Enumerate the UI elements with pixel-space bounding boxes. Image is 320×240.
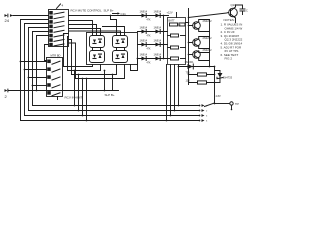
wire U1 out b [68, 24, 96, 35]
U1 switch S2 [50, 16, 64, 19]
svg-text:47K: 47K [146, 63, 151, 65]
wire Q3 base [188, 41, 192, 43]
U1 switch S5 [50, 30, 64, 33]
wire power rail vertical [213, 66, 215, 103]
wire bus drop d [85, 78, 87, 120]
junction row1 [163, 15, 165, 17]
wire Q4 collector [199, 51, 210, 53]
junction [174, 110, 176, 112]
U1 switch S4 [50, 25, 64, 28]
svg-text:NOTES:: NOTES: [223, 18, 234, 22]
bus pin P1 [199, 104, 205, 107]
wire module out a [185, 21, 188, 23]
svg-text:BATT: BATT [168, 19, 175, 22]
wire rail a [187, 8, 189, 84]
bus pin P4 [199, 119, 205, 122]
IC U2 switch array box [46, 57, 62, 96]
junction [214, 74, 216, 76]
junction [24, 69, 26, 71]
wire SLP tap to OC2 [110, 15, 116, 35]
wire Q1 collector [235, 5, 242, 8]
junction [209, 66, 211, 68]
wire OC4 feedback [130, 58, 137, 70]
capacitor C11 label [112, 12, 126, 16]
diode D5 [139, 38, 147, 46]
diode D8 [153, 52, 161, 60]
svg-text:FIG 2: FIG 2 [224, 57, 232, 61]
resistor R5 [170, 57, 178, 60]
IC U3 optocoupler box [86, 32, 137, 64]
U1 switch S3 [50, 21, 64, 24]
resistor R8 [185, 79, 214, 84]
junction [86, 120, 88, 122]
transistor Q2 [193, 22, 201, 30]
diode D7 [139, 52, 147, 60]
junction [178, 66, 180, 68]
junction [82, 78, 84, 80]
wire riser b [111, 74, 113, 90]
junction [82, 115, 84, 117]
svg-text:24: 24 [4, 18, 9, 23]
wire OC inner d [123, 47, 125, 50]
wire bundle v5 [36, 35, 48, 90]
wire input to U1 [13, 14, 49, 16]
svg-text:4.8V: 4.8V [215, 95, 220, 98]
U1 switch S1 [50, 11, 64, 14]
svg-text:1N914: 1N914 [139, 25, 147, 29]
bus pin P3 [199, 114, 205, 117]
svg-text:47K: 47K [146, 36, 151, 38]
wire tap U2 pin c [32, 84, 46, 86]
wire module top pin [175, 12, 177, 17]
junction [214, 103, 216, 105]
svg-text:TIP: TIP [235, 103, 239, 106]
wire Q3 collector [199, 36, 210, 38]
junction [188, 25, 190, 27]
junction row4 [163, 58, 165, 60]
wire supply feed [178, 65, 214, 67]
wire U1 out a [68, 20, 92, 35]
U1 switch S8 [50, 43, 64, 46]
junction [78, 74, 80, 76]
svg-text:2: 2 [4, 94, 7, 99]
junction [166, 120, 168, 122]
wire SLP B+ bus [68, 14, 168, 16]
wire tap U2 pin a [24, 68, 46, 70]
diode D4 [153, 25, 161, 33]
svg-text:MTR BD: MTR BD [50, 53, 60, 57]
svg-text:1N4001: 1N4001 [184, 60, 194, 64]
diode D10 [184, 60, 194, 69]
junction [188, 17, 190, 19]
svg-text:RCV MUTE CONTROL: RCV MUTE CONTROL [70, 8, 101, 12]
svg-text:SLP B+: SLP B+ [103, 8, 113, 12]
U2 switch S4 [48, 84, 60, 88]
wire row2 [137, 30, 167, 32]
bus pin P2 [199, 109, 205, 112]
wire Q4 base [188, 53, 192, 55]
U2 bottom pin [56, 96, 58, 99]
svg-text:2: 2 [206, 110, 208, 112]
wire bundle v2 [24, 23, 199, 115]
wire terminal2 [8, 89, 119, 91]
diode D1 [139, 9, 147, 17]
module A1 box [167, 17, 185, 64]
wire bundle v4 [32, 31, 199, 105]
U1 pin 4 mark [56, 3, 63, 8]
junction [188, 74, 190, 76]
junction [86, 78, 88, 80]
junction [214, 66, 216, 68]
wire Q2 collector [199, 19, 210, 21]
wire U1 low out a [63, 33, 92, 66]
wire U1 out c [68, 28, 100, 35]
wire Q2 emitter [199, 29, 210, 31]
resistor R1 [169, 23, 181, 27]
wire U1 to U2 link [44, 44, 48, 60]
junction [32, 85, 34, 87]
U1 switch S7 [50, 39, 64, 42]
wire to Q1 [188, 12, 228, 17]
svg-text:47K: 47K [146, 20, 151, 22]
svg-text:1N914: 1N914 [139, 9, 147, 13]
wire Q3 emitter [199, 46, 210, 48]
junction row2 [163, 31, 165, 33]
U1 switch S6 [50, 34, 64, 37]
wire OC inner a [91, 47, 93, 50]
resistor R7 [185, 71, 214, 76]
wire OC2 pin [102, 26, 124, 35]
wire bundle v3 [28, 27, 199, 110]
junction [28, 77, 30, 79]
wire tap U2 pin 0 [20, 60, 46, 62]
optocoupler OC3 [89, 50, 104, 62]
svg-text:4: 4 [61, 3, 63, 7]
U2 switch S3 [48, 76, 60, 80]
capacitor C12 [240, 9, 248, 15]
svg-text:1N914: 1N914 [139, 38, 147, 42]
junction row3 [163, 44, 165, 46]
resistor R2 [179, 23, 185, 26]
wire OC inner b [99, 47, 101, 50]
node 24 input terminal [4, 14, 13, 23]
optocoupler OC1 [89, 35, 104, 47]
U2 switch S1 [48, 60, 60, 64]
svg-text:5: 5 [206, 120, 208, 122]
wire OC inner c [115, 47, 117, 50]
wire merge diagonal [204, 103, 214, 107]
wire Q4 emitter [199, 58, 210, 60]
svg-text:RCV INHIBIT: RCV INHIBIT [64, 95, 82, 99]
svg-text:C: C [246, 9, 248, 12]
svg-text:47K: 47K [146, 49, 151, 51]
wire module outputs down a [165, 64, 167, 120]
notes text block [220, 18, 242, 61]
wire U1 low out d [68, 43, 124, 79]
wire module outputs down c [173, 64, 175, 110]
U2 switch S5 [48, 92, 60, 96]
wire bus drop c [81, 78, 83, 115]
junction [188, 42, 190, 44]
resistor R4 [170, 46, 178, 49]
wire U1 out d [68, 31, 120, 36]
junction SLP [110, 15, 112, 17]
junction [178, 105, 180, 107]
wire bundle v1 [20, 19, 199, 120]
transistor Q4 [193, 51, 201, 59]
svg-text:SLP B+: SLP B+ [104, 93, 114, 97]
svg-text:750: 750 [185, 71, 190, 74]
optocoupler OC4 [112, 50, 127, 62]
svg-text:1N914: 1N914 [153, 25, 161, 29]
zener D9 [214, 70, 232, 82]
svg-text:1N914: 1N914 [153, 38, 161, 42]
junction [137, 58, 139, 60]
jack J2 [214, 95, 239, 110]
diode D2 [153, 9, 161, 17]
wire module row links [167, 35, 185, 58]
wire bus drop b [77, 74, 79, 110]
transistor Q1 [229, 7, 238, 18]
wire U1 low out b [67, 36, 100, 70]
label pin numbers [206, 105, 208, 122]
junction [188, 22, 190, 24]
svg-text:2N2222: 2N2222 [202, 48, 212, 52]
diode D3 [139, 25, 147, 33]
svg-text:1N4733: 1N4733 [223, 75, 233, 79]
wire U1 low out c [68, 39, 116, 74]
svg-text:+12V: +12V [166, 10, 172, 14]
wire row3 [137, 43, 167, 45]
svg-text:1N914: 1N914 [153, 9, 161, 13]
wire Q1 emitter [234, 18, 236, 23]
junction [74, 70, 76, 72]
svg-text:1N914: 1N914 [153, 52, 161, 56]
svg-text:1N914: 1N914 [139, 52, 147, 56]
optocoupler OC2 [112, 35, 127, 47]
junction [170, 115, 172, 117]
wire Q2 base [188, 24, 192, 26]
svg-text:3: 3 [206, 115, 208, 117]
junction [188, 54, 190, 56]
junction [78, 110, 80, 112]
node 2 terminal bottom left [4, 89, 7, 99]
diode D6 [153, 38, 161, 46]
IC U1 switch array box [48, 9, 68, 46]
wire row4 [137, 57, 167, 59]
junction [214, 82, 216, 84]
U2 switch S2 [48, 68, 60, 72]
svg-text:1K: 1K [178, 24, 181, 27]
wire bus drop a [73, 70, 75, 105]
svg-text:C11: C11 [120, 12, 126, 16]
transistor Q3 [193, 39, 201, 47]
wire diode common [162, 15, 164, 58]
resistor R3 [170, 34, 178, 37]
wire tap U2 pin b [28, 76, 46, 78]
wire collector rail [208, 19, 210, 66]
wire module outputs down b [169, 64, 171, 115]
wire module outputs down d [177, 64, 179, 105]
svg-text:100: 100 [185, 79, 190, 82]
wire riser a [103, 70, 105, 90]
junction [74, 105, 76, 107]
